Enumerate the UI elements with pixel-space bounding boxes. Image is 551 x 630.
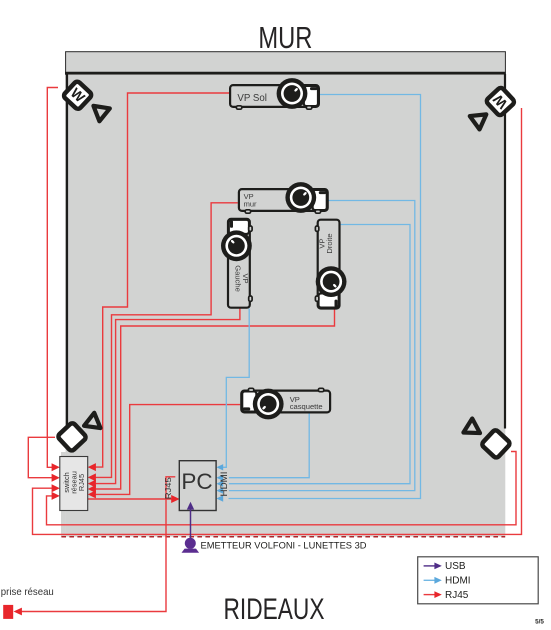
projector VP mur xyxy=(239,182,328,213)
speaker bottom-left xyxy=(57,422,87,452)
svg-text:USB: USB xyxy=(445,561,466,572)
room bottom-left gray extension xyxy=(61,452,66,537)
room right border xyxy=(504,74,506,429)
legend HDMI arrow xyxy=(424,579,435,581)
wire RJ45 bottom-left speaker to switch xyxy=(28,437,55,477)
projector VP Droite xyxy=(315,220,346,309)
wire HDMI VP Gauche to PC xyxy=(218,309,249,468)
svg-text:MUR: MUR xyxy=(258,21,312,55)
svg-text:mur: mur xyxy=(244,199,257,208)
svg-text:RJ45: RJ45 xyxy=(163,477,173,499)
legend box xyxy=(418,557,539,604)
speaker W top-left xyxy=(63,80,93,110)
wire RJ45 switch to PC xyxy=(88,498,172,500)
wire RJ45 top-right speaker to switch xyxy=(33,108,522,534)
svg-text:5/5: 5/5 xyxy=(535,618,544,625)
wire RJ45 VP Sol to switch xyxy=(95,93,229,467)
wall band (MUR) xyxy=(66,52,506,74)
speaker tweeter bottom-left xyxy=(84,412,102,428)
wall thick line xyxy=(65,72,506,75)
speaker tweeter bottom-right xyxy=(463,418,480,433)
svg-text:casquette: casquette xyxy=(290,402,323,411)
speaker W top-right xyxy=(485,87,515,117)
wire RJ45 bottom-right speaker to switch xyxy=(47,452,517,525)
legend RJ45 arrow xyxy=(424,594,435,596)
svg-text:RIDEAUX: RIDEAUX xyxy=(224,593,325,626)
svg-text:RJ45: RJ45 xyxy=(445,590,469,601)
projector VP Gauche xyxy=(221,219,252,308)
room left border xyxy=(66,74,68,433)
wire RJ45 VP Gauche to switch xyxy=(95,308,240,483)
speaker tweeter top-right xyxy=(470,114,488,130)
svg-text:EMETTEUR VOLFONI - LUNETTES 3D: EMETTEUR VOLFONI - LUNETTES 3D xyxy=(201,541,368,551)
svg-text:prise réseau: prise réseau xyxy=(1,587,54,598)
wire RJ45 VP Droite to switch xyxy=(95,309,335,489)
room xyxy=(66,75,506,537)
PC box xyxy=(179,461,216,511)
wire RJ45 top-left speaker to switch xyxy=(47,88,58,468)
curtains dashed line (RIDEAUX) xyxy=(61,536,505,538)
wire USB emitter to PC xyxy=(190,509,192,538)
wire HDMI VP Droite to PC xyxy=(229,225,411,484)
wire RJ45 VP mur to switch xyxy=(95,203,238,478)
wire HDMI VP Sol to PC xyxy=(229,95,421,499)
switch reseau RJ45 box xyxy=(60,457,88,511)
wire HDMI VP casquette to PC xyxy=(229,414,310,478)
speaker bottom-right xyxy=(481,429,511,459)
emitter Volfoni icon xyxy=(185,538,196,549)
legend USB arrow xyxy=(424,565,435,567)
wire HDMI VP mur to PC xyxy=(229,201,415,491)
projector VP casquette xyxy=(241,388,330,419)
speaker tweeter top-left xyxy=(91,106,110,123)
projector VP Sol xyxy=(230,78,319,109)
wire RJ45 VP casquette to switch xyxy=(95,405,240,495)
RJ45 port hook on PC xyxy=(166,477,175,499)
svg-text:switchréseauRJ45: switchréseauRJ45 xyxy=(62,471,86,494)
svg-text:HDMI: HDMI xyxy=(445,576,471,587)
svg-text:VP Sol: VP Sol xyxy=(237,93,267,104)
svg-text:PC: PC xyxy=(181,469,212,494)
wire RJ45 to prise reseau xyxy=(22,499,167,612)
prise reseau square xyxy=(3,605,13,619)
svg-text:HDMI: HDMI xyxy=(219,472,229,497)
gray mask under HDMI label xyxy=(223,471,229,499)
